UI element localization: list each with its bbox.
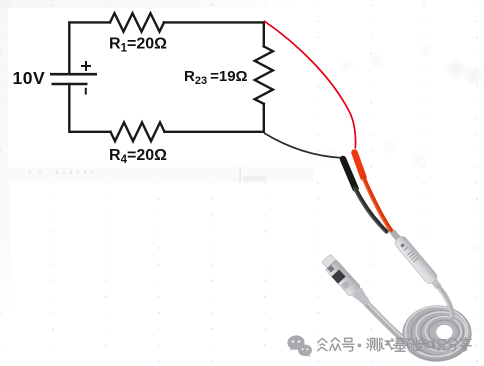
coiled cable [403,306,471,361]
left margin band [0,0,10,320]
wire top [69,22,110,74]
red probe [355,153,364,178]
resistor R23 [255,46,273,103]
soft background blobs [293,84,309,100]
black lead cable [355,188,387,232]
black test lead wire [264,133,342,158]
wire bottom-right [165,131,264,133]
canvas bottom strip [8,168,313,183]
svg-text:R1=20Ω: R1=20Ω [109,36,167,55]
watermark text [318,338,472,352]
watermark wechat icon [287,335,312,357]
resistor R4 [111,122,165,141]
red test lead wire [264,21,356,149]
battery plus sign [81,61,91,71]
wire right-bottom [263,104,265,132]
logger module U1 [387,227,444,291]
circuit canvas (white panel covering grid) [8,8,313,183]
svg-text:R4=20Ω: R4=20Ω [109,147,167,166]
wire top-right [164,22,264,46]
faint scope readout mark [240,167,241,182]
svg-text:R23 =19Ω: R23 =19Ω [184,68,248,87]
usb cable from connector to coil [367,304,404,340]
usb connector [320,254,373,310]
red lead cable [364,178,393,233]
top margin band [0,0,300,9]
svg-text:10V: 10V [13,68,46,88]
battery minus tick [85,88,87,95]
resistor R1 [110,13,164,31]
black probe [343,159,356,189]
strip mini dots [29,171,93,173]
wire bottom-left [69,84,110,132]
module tail cable [439,288,453,319]
strain relief ribs [352,287,372,307]
battery V1 plates [50,74,97,84]
